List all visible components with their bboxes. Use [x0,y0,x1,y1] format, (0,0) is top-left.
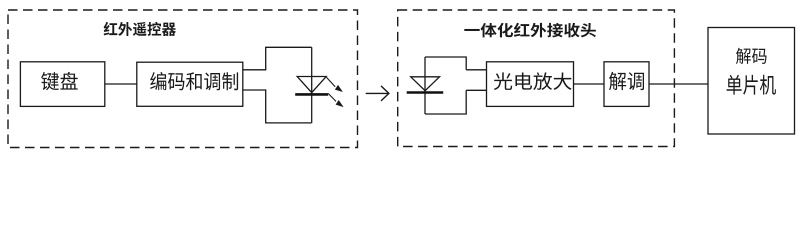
wire: photodiode loop to amplifier, lower stub [466,89,486,91]
title: 红外遥控器 (IR remote controller) [104,22,176,36]
LED D1: emission arrow 2 [328,94,343,108]
wire: demodulator to MCU (crosses dashed border) [649,83,708,85]
block: keypad 键盘 [20,62,104,107]
block: demodulator 解调 [604,62,649,107]
block: encoder/modulator 编码和调制 [137,62,243,106]
label: 单片机 (MCU) [727,75,776,95]
label: 编码和调制 (encode & modulate) [150,72,238,90]
wire: encoder to LED loop, upper stub [243,69,266,71]
label: 键盘 (keypad) [41,72,78,90]
label: 光电放大 (photoelectric amplify) [494,72,572,90]
block: decoder MCU 解码单片机 [708,28,795,135]
photodiode D2: triangle [411,77,440,91]
LED D1: cathode bar [295,93,328,96]
photodiode D2: vertical wire (left side of loop) [424,57,426,114]
block: photo amplifier 光电放大 [487,62,574,107]
title: 一体化红外接收头 (integrated IR receiver) [464,23,596,38]
wire loop around LED (open rectangle, gap on left) [266,47,312,123]
wire: amplifier to demodulator [574,83,605,85]
dashed enclosure: integrated IR receiver unit (一体化红外接收头) [398,10,675,147]
label: 解调 (demodulate) [609,72,644,90]
LED D1: triangle [297,77,326,93]
wire: encoder to LED loop, lower stub [243,89,266,91]
LED D1: emission arrow 1 [327,77,343,92]
dashed enclosure: IR transmitter unit (红外遥控器) [8,10,358,148]
label: 解码 (decode) [736,48,767,64]
LED D1: vertical anode/cathode wire [311,47,313,123]
wire loop around photodiode (open rectangle, gap on right) [425,57,466,114]
photodiode D2: cathode bar [407,91,444,94]
signal arrow between transmitter and receiver [366,86,389,101]
wire: photodiode loop to amplifier, upper stub [466,69,486,71]
wire: keypad to encoder [105,83,137,85]
